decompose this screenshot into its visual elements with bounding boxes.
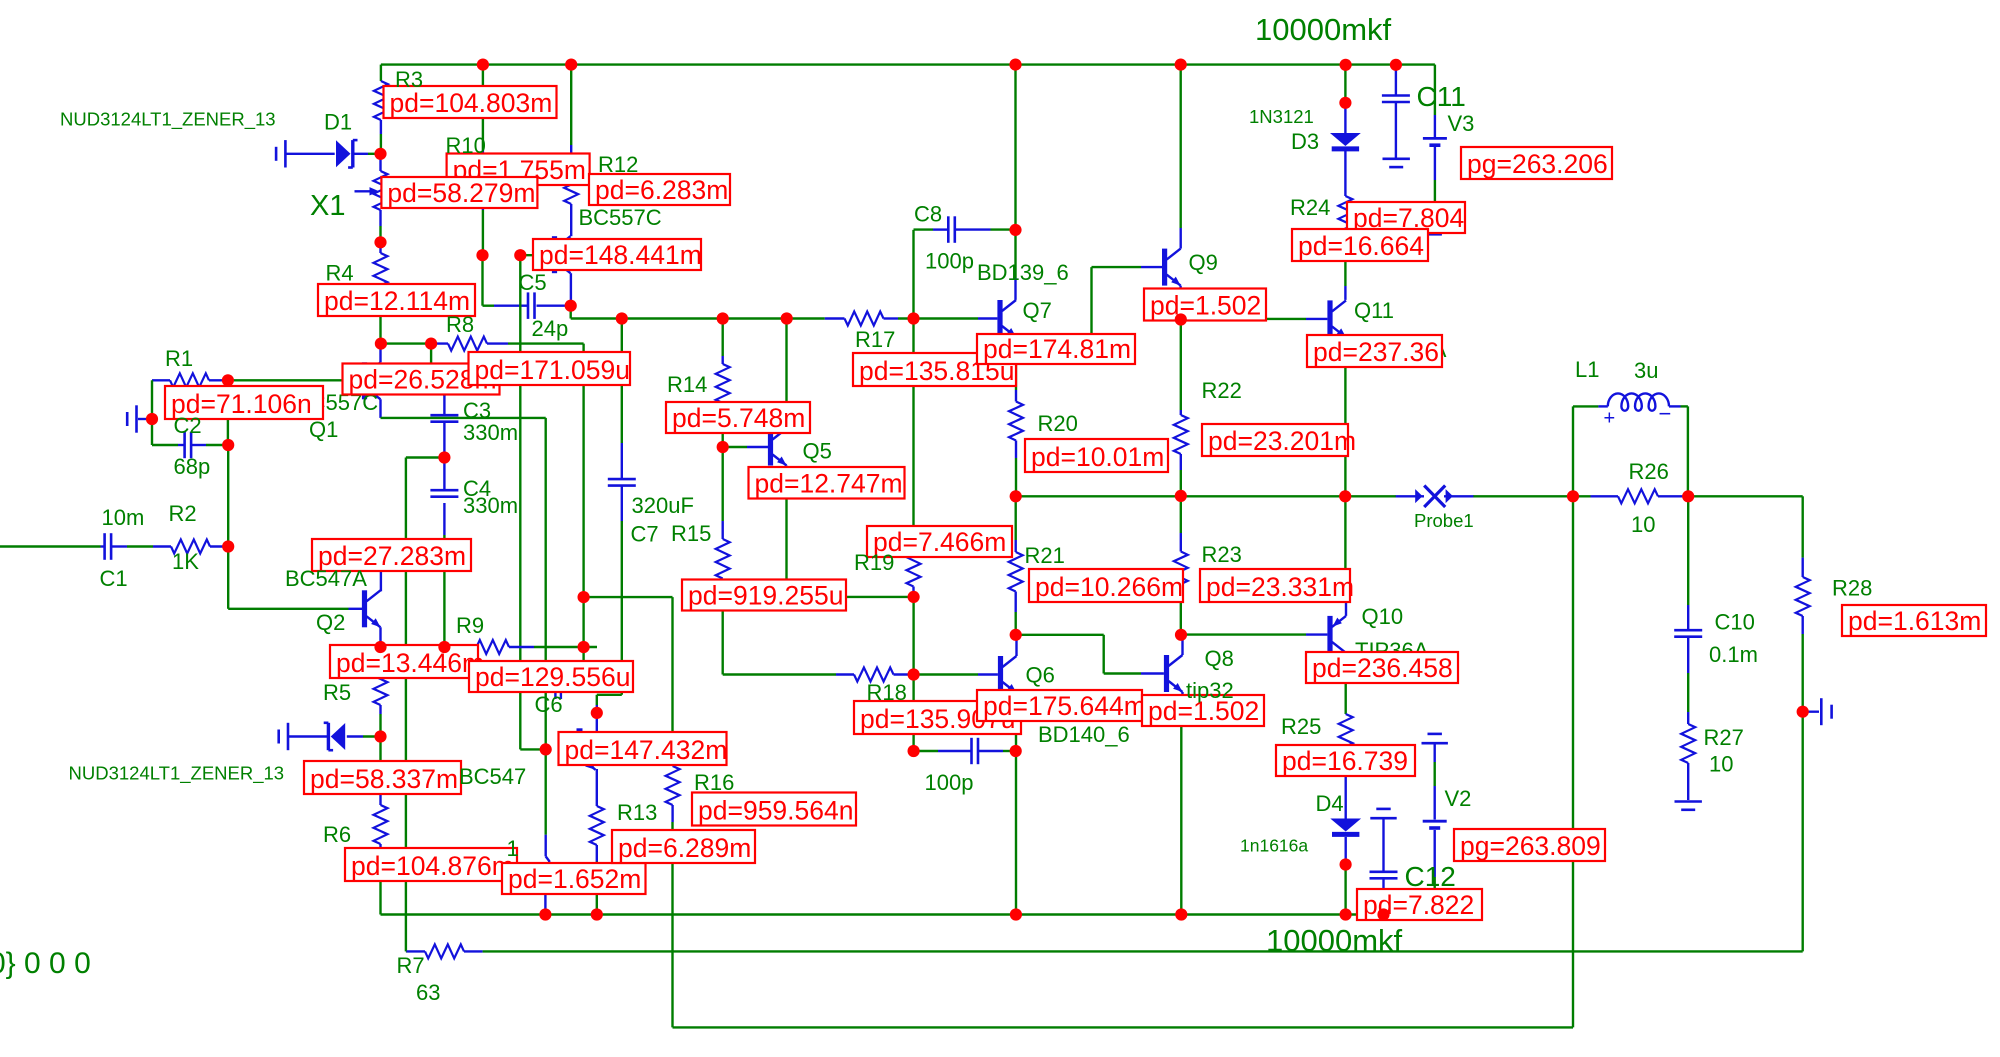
svg-text:1K: 1K [172, 549, 199, 574]
svg-text:V3: V3 [1448, 111, 1475, 136]
wire node406 column [405, 458, 407, 952]
svg-text:C7: C7 [631, 522, 659, 547]
wire Q9 base elbow [1016, 267, 1162, 350]
resistor R18 [854, 668, 894, 682]
resistor R28 [1796, 577, 1810, 616]
transistor Q1 [362, 362, 381, 399]
label Q8 [1205, 646, 1234, 671]
resistor R24 [1338, 196, 1352, 235]
label C1 [100, 566, 128, 591]
resistor R12 [564, 165, 578, 204]
transistor Q7 [997, 300, 1016, 337]
svg-text:R19: R19 [854, 550, 894, 575]
label X1 [310, 190, 345, 222]
label R5 [323, 680, 351, 705]
annotation pd=16.739 (R25) [1276, 745, 1415, 776]
wire node545 column [545, 749, 549, 914]
label Q9 [1189, 250, 1218, 275]
label BC547 (Q4) [459, 764, 526, 789]
wire node583 R9 link [582, 597, 584, 647]
annotation pd=1.502 (Q8) [1142, 695, 1264, 726]
svg-text:pd=959.564n: pd=959.564n [698, 796, 853, 826]
wire C8 loop [914, 230, 1016, 319]
wire Q11 emitter run [1344, 337, 1347, 496]
svg-text:10000mkf: 10000mkf [1255, 12, 1392, 47]
svg-text:D4: D4 [1316, 791, 1344, 816]
wire Q10 emitter lead [1344, 496, 1347, 616]
resistor R6 [374, 805, 388, 844]
svg-text:R25: R25 [1281, 714, 1321, 739]
resistor R7 [425, 944, 464, 958]
svg-text:Q5: Q5 [803, 439, 832, 464]
annotation pd=7.466m (R19) [867, 526, 1012, 557]
label C3 [463, 398, 491, 423]
svg-text:pd=147.432m: pd=147.432m [565, 735, 728, 765]
resistor R2 [171, 540, 210, 554]
annotation pd=1.502 (Q9) [1144, 289, 1266, 321]
wire Q1 base [228, 379, 362, 381]
label C4 [463, 476, 491, 501]
label R4 [326, 261, 354, 286]
svg-text:330m: 330m [463, 420, 518, 445]
ground at D2 [279, 723, 288, 750]
wire C7 column [621, 319, 623, 695]
label R3 [395, 67, 423, 92]
svg-text:R21: R21 [1025, 543, 1065, 568]
label 100p (C8) [925, 249, 974, 274]
label Q11 [1354, 298, 1394, 323]
annotation pd=23.331m (R23) [1200, 569, 1354, 602]
annotation pd=6.283m (R12) [589, 174, 730, 205]
wire C3 top link [431, 344, 444, 416]
label C10 [1715, 610, 1755, 635]
svg-text:C12: C12 [1405, 861, 1456, 892]
svg-text:R2: R2 [169, 501, 197, 526]
svg-text:R5: R5 [323, 680, 351, 705]
svg-text:pd=104.876m: pd=104.876m [351, 851, 514, 881]
svg-text:1N3121: 1N3121 [1249, 106, 1314, 127]
wire Q3 base [520, 254, 552, 256]
resistor R22 [1174, 415, 1188, 454]
diode D3 [1330, 133, 1361, 149]
annotation pd=27.283m (Q2) [312, 539, 471, 571]
svg-text:0} 0 0 0: 0} 0 0 0 [0, 947, 91, 980]
capacitor C2 [185, 432, 192, 458]
transistor Q11 [1327, 300, 1346, 337]
wire Q6 collector lead [1015, 635, 1017, 656]
wire Q11 base row [1181, 318, 1328, 320]
label 330m (C4) [463, 493, 518, 518]
wire C3-C4 junction elbow [406, 423, 445, 458]
wire R7 row [406, 950, 1803, 952]
label R2 [169, 501, 197, 526]
resistor R19 [907, 548, 921, 587]
wire Q8 collector lead [1181, 635, 1183, 655]
ground at R1 [127, 405, 136, 432]
annotation pd=104.803m (R3) [384, 86, 557, 118]
annotation pd=26.528m (Q1) [343, 364, 500, 395]
capacitor C12 [1370, 872, 1398, 879]
svg-text:R18: R18 [867, 680, 907, 705]
resistor R17 [845, 312, 884, 326]
wire R25 D4 link [1344, 753, 1346, 819]
svg-text:R22: R22 [1202, 378, 1242, 403]
svg-text:pd=5.748m: pd=5.748m [672, 403, 805, 433]
transistor Q5 [768, 429, 787, 466]
wire V2 bottom link [1433, 745, 1435, 915]
capacitor C1 [105, 533, 112, 560]
probe Probe1 [1415, 486, 1453, 508]
label R10 [446, 133, 486, 158]
resistor R14 [716, 364, 730, 403]
resistor R20 [1009, 402, 1023, 441]
wire Q5 emitter run [787, 466, 914, 597]
svg-text:L1: L1 [1575, 357, 1599, 382]
svg-text:R3: R3 [395, 67, 423, 92]
svg-text:10: 10 [1631, 512, 1655, 537]
wire C7 elbow [597, 695, 622, 713]
svg-text:R9: R9 [456, 613, 484, 638]
ground at D1 [276, 140, 285, 167]
wire R19 column [912, 319, 914, 752]
wire V3 ground link [1434, 147, 1436, 224]
svg-text:R16: R16 [694, 770, 734, 795]
label R20 [1038, 411, 1078, 436]
label 68p [174, 454, 211, 479]
svg-text:68p: 68p [174, 454, 211, 479]
label R28 [1832, 576, 1872, 601]
svg-text:R14: R14 [667, 372, 707, 397]
wire R12 column [570, 65, 572, 237]
svg-text:Q7: Q7 [1023, 298, 1052, 323]
wire R18 row [723, 673, 914, 675]
svg-text:100p: 100p [925, 249, 974, 274]
resistor R8 [448, 337, 487, 351]
svg-text:pd=13.446m: pd=13.446m [336, 648, 484, 678]
wire V3 branch [1434, 65, 1436, 137]
label R25 [1281, 714, 1321, 739]
label R12 [598, 152, 638, 177]
svg-text:+: + [1604, 408, 1616, 430]
label 1 (hidden label) [507, 836, 519, 861]
annotation pd=12.747m (Q5) [749, 467, 905, 499]
annotation pg=263.206 (V3) [1461, 147, 1612, 179]
svg-text:pd=10.266m: pd=10.266m [1035, 572, 1183, 602]
label 63 [416, 980, 440, 1005]
wire R15 column [722, 447, 724, 675]
wire top rail [381, 63, 1435, 65]
svg-text:R23: R23 [1202, 542, 1242, 567]
wire Q8 emitter run [1181, 692, 1182, 915]
wire R10 column [482, 65, 484, 256]
annotation pd=1.755m (R10) [447, 154, 590, 186]
svg-text:R20: R20 [1038, 411, 1078, 436]
resistor R13 [590, 806, 604, 845]
label R22 [1202, 378, 1242, 403]
label 10m (C1) [102, 505, 145, 530]
wire Q9 emitter lead [1179, 286, 1181, 320]
svg-text:pd=104.803m: pd=104.803m [390, 88, 553, 118]
svg-text:63: 63 [416, 980, 440, 1005]
svg-text:Q1: Q1 [309, 417, 338, 442]
svg-text:Q10: Q10 [1362, 604, 1404, 629]
label TIP36A (Q10) [1355, 638, 1429, 663]
label Probe1 [1414, 510, 1474, 531]
annotation pd=23.201m (R22) [1202, 424, 1356, 456]
svg-text:pg=263.809: pg=263.809 [1460, 831, 1601, 861]
label R6 [323, 822, 351, 847]
wire Q1 collector run [381, 399, 546, 749]
label 1K [172, 549, 199, 574]
wire D3 column [1344, 65, 1346, 196]
svg-text:−: − [1659, 401, 1672, 426]
label BC557C (Q1) [295, 390, 378, 415]
label R26 [1629, 459, 1669, 484]
label Q2 [316, 610, 345, 635]
wire R24 Q11 link [1344, 235, 1346, 300]
label R23 [1202, 542, 1242, 567]
wire C2 row [152, 419, 228, 445]
resistor R3 [374, 81, 388, 120]
annotation pd=16.664 (D3) [1292, 229, 1428, 261]
label Q6 [1026, 663, 1055, 688]
annotation pd=7.822 (C12) [1357, 889, 1482, 920]
resistor R9 [470, 640, 509, 654]
svg-text:C11: C11 [1417, 81, 1466, 112]
label 320uF [632, 493, 694, 518]
ground at R28 [1821, 698, 1831, 725]
svg-text:C10: C10 [1715, 610, 1755, 635]
ground at V3 [1421, 226, 1448, 234]
label BD139_6 (Q7) [977, 260, 1069, 285]
wire Q5 collector lead [785, 319, 787, 429]
svg-text:R8: R8 [446, 312, 474, 337]
label NUD3124LT1_ZENER_13 (D2) [69, 762, 285, 784]
label 100p (C9) [925, 770, 974, 795]
label BC557C (Q3) [579, 205, 662, 230]
wire node583 column [582, 344, 584, 661]
annotation pd=1.652m (C6) [502, 863, 646, 894]
resistor R25 [1339, 714, 1353, 753]
ground at R27 [1675, 802, 1702, 810]
wire Q10 base row [1181, 633, 1327, 635]
svg-text:100p: 100p [925, 770, 974, 795]
svg-text:C8: C8 [914, 202, 942, 227]
svg-text:C1: C1 [100, 566, 128, 591]
annotation pd=171.059u (R8) [469, 352, 631, 385]
svg-text:pd=6.289m: pd=6.289m [618, 833, 751, 863]
label R15 [671, 521, 711, 546]
label C5 [519, 270, 547, 295]
annotation pd=58.337m (D2) [304, 761, 461, 794]
resistor R27 [1681, 724, 1695, 763]
wire X1 column [379, 154, 381, 243]
wire R20 R21 column [1015, 337, 1018, 635]
svg-text:R1: R1 [165, 346, 193, 371]
wire R28 column [1801, 496, 1803, 711]
wire R14 column [722, 319, 724, 448]
diode D4 [1330, 819, 1361, 835]
wire D1 leads [287, 153, 381, 155]
svg-text:pd=1.613m: pd=1.613m [1848, 606, 1981, 636]
wire R22 R23 column [1180, 320, 1182, 635]
label R19 [854, 550, 894, 575]
wire mid bus [571, 306, 998, 319]
wire C4 bottom lead [443, 458, 445, 648]
wire Q2 base [228, 547, 362, 609]
label 10000mkf (bottom) [1266, 923, 1403, 958]
svg-text:R6: R6 [323, 822, 351, 847]
svg-text:Q2: Q2 [316, 610, 345, 635]
svg-text:pd=148.441m: pd=148.441m [539, 240, 702, 270]
wire R6 column [379, 737, 381, 915]
svg-text:R24: R24 [1290, 195, 1330, 220]
annotation pd=71.106n (R1) [165, 386, 323, 419]
label 10 (R27) [1709, 752, 1733, 777]
wire D2 leads [289, 735, 381, 737]
svg-text:pd=171.059u: pd=171.059u [475, 355, 630, 385]
transistor Q2 [362, 590, 381, 627]
annotation pd=147.432m (Q4) [559, 732, 728, 765]
wire bottom loop [584, 496, 1573, 1027]
transistor Q9 [1162, 249, 1181, 286]
svg-text:C6: C6 [535, 692, 563, 717]
wire R8 row [381, 342, 584, 344]
voltage source V3 [1423, 138, 1447, 145]
wire Q10 collector run [1344, 653, 1347, 714]
annotation pd=175.644m (Q6) [977, 690, 1146, 721]
label D1 [324, 110, 352, 135]
wire C11 leads [1395, 70, 1397, 158]
svg-text:Probe1: Probe1 [1414, 510, 1474, 531]
label 24p [532, 316, 569, 341]
label R9 [456, 613, 484, 638]
label C2 [174, 413, 202, 438]
label C8 [914, 202, 942, 227]
svg-text:3u: 3u [1634, 358, 1658, 383]
svg-text:330m: 330m [463, 493, 518, 518]
svg-text:pd=919.255u: pd=919.255u [688, 581, 843, 611]
label 1N3121 (D3) [1249, 106, 1314, 127]
label 0.1m (C10) [1709, 642, 1758, 667]
wire C9 row [914, 750, 1016, 752]
label 330m (C3) [463, 420, 518, 445]
label R27 [1704, 725, 1744, 750]
svg-text:NUD3124LT1_ZENER_13: NUD3124LT1_ZENER_13 [69, 762, 285, 784]
wire Q8 base elbow [1016, 635, 1164, 674]
label R24 [1290, 195, 1330, 220]
svg-text:pd=16.664: pd=16.664 [1298, 231, 1424, 261]
annotation pd=236.458 (Q10) [1306, 652, 1458, 683]
resistor R15 [716, 539, 730, 579]
annotation pd=135.815u (R17) [853, 353, 1016, 386]
svg-text:pd=58.337m: pd=58.337m [310, 764, 458, 794]
label R16 [694, 770, 734, 795]
svg-text:R26: R26 [1629, 459, 1669, 484]
wire R3 column [380, 65, 382, 154]
svg-text:pd=12.747m: pd=12.747m [755, 469, 903, 499]
svg-text:R28: R28 [1832, 576, 1872, 601]
svg-text:BC547A: BC547A [285, 566, 367, 591]
svg-text:R13: R13 [617, 800, 657, 825]
label 3u [1634, 358, 1658, 383]
label R8 [446, 312, 474, 337]
ground at V2 [1422, 734, 1448, 743]
capacitor C10 [1674, 630, 1702, 637]
annotation pd=10.266m (R21) [1029, 569, 1183, 602]
label R18 [867, 680, 907, 705]
capacitor C7 [608, 479, 636, 486]
annotation pd=174.81m (Q7) [977, 334, 1135, 364]
annotation pd=104.876m (R6) [345, 848, 517, 881]
annotation pd=135.907u (R18) [854, 701, 1021, 734]
wire bottom bus [381, 913, 1435, 915]
capacitor C3 [430, 415, 458, 422]
svg-text:pd=175.644m: pd=175.644m [983, 691, 1146, 721]
svg-text:10m: 10m [102, 505, 145, 530]
wire R1 ground link [138, 380, 152, 419]
label 1n1616a (D4) [1240, 836, 1308, 856]
label C7 [631, 522, 659, 547]
resistor R26 [1618, 489, 1658, 503]
svg-text:R12: R12 [598, 152, 638, 177]
svg-text:R17: R17 [855, 327, 895, 352]
annotation pd=58.279m (X1) [381, 177, 537, 208]
svg-text:BD139_6: BD139_6 [977, 260, 1069, 285]
svg-text:NUD3124LT1_ZENER_13: NUD3124LT1_ZENER_13 [60, 109, 276, 131]
svg-text:R7: R7 [397, 953, 425, 978]
wire input row [0, 545, 228, 547]
wire C5 row [483, 255, 571, 306]
svg-text:1n1616a: 1n1616a [1240, 836, 1308, 856]
rheostat X1 [355, 171, 388, 210]
label D3 [1291, 129, 1319, 154]
resistor R10 [476, 158, 490, 197]
wire Q2 collector link [381, 562, 406, 591]
wire Q3 collector lead [570, 273, 572, 306]
label D4 [1316, 791, 1344, 816]
svg-text:0.1m: 0.1m [1709, 642, 1758, 667]
label NUD3124LT1_ZENER_13 (D1) [60, 109, 276, 131]
capacitor C4 [430, 490, 458, 497]
label C12 [1405, 861, 1456, 892]
svg-text:C2: C2 [174, 413, 202, 438]
wire node520 column [520, 255, 545, 749]
label R14 [667, 372, 707, 397]
label C6 [535, 692, 563, 717]
svg-text:R10: R10 [446, 133, 486, 158]
label R7 [397, 953, 425, 978]
transistor Q10 [1327, 616, 1346, 653]
wire D4 bottom link [1344, 837, 1346, 915]
transistor Q8 [1164, 655, 1183, 692]
capacitor C11 [1382, 96, 1410, 103]
label tip32 (Q8) [1186, 678, 1234, 703]
annotation pd=1.613m (R28) [1842, 605, 1986, 636]
annotation pd=12.114m (R4) [318, 284, 475, 316]
label 10000mkf (top) [1255, 12, 1392, 47]
svg-text:pd=1.502: pd=1.502 [1150, 291, 1261, 321]
wire node228 column [227, 380, 230, 546]
wire C10 column [1687, 496, 1689, 800]
annotation pd=13.446m (R5) [330, 645, 484, 678]
label C11 [1417, 81, 1466, 112]
svg-text:320uF: 320uF [632, 493, 694, 518]
annotation pd=237.36 (Q11) [1307, 335, 1442, 367]
resistor R5 [374, 666, 388, 705]
label Q5 [803, 439, 832, 464]
svg-text:R4: R4 [326, 261, 354, 286]
